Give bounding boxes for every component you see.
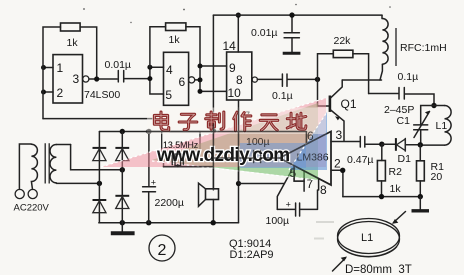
node detector out bbox=[418, 142, 423, 147]
svg-text:100µ: 100µ bbox=[246, 136, 270, 148]
svg-text:C1: C1 bbox=[397, 115, 411, 127]
svg-text:D=80mm 3T: D=80mm 3T bbox=[345, 264, 412, 275]
node 2200u top bbox=[146, 129, 151, 134]
ground rail bottom bbox=[99, 222, 239, 224]
watermark pink triangle bbox=[101, 98, 326, 167]
wire ground rail right bbox=[343, 196, 420, 198]
svg-text:9: 9 bbox=[229, 61, 236, 75]
capacitor 0.01u (coupling 1) bbox=[118, 71, 150, 82]
node R2 bottom bbox=[379, 194, 384, 199]
diode bridge top-right bbox=[115, 148, 129, 161]
svg-text:+: + bbox=[286, 200, 291, 210]
wire pin5 step bbox=[294, 166, 304, 181]
wire 1k feedback left bbox=[43, 27, 61, 119]
diode bridge bottom-right bbox=[115, 196, 129, 209]
svg-text:6: 6 bbox=[179, 75, 186, 89]
wire pin3 input bbox=[331, 141, 360, 143]
resistor R 1k (second) bbox=[166, 23, 186, 31]
svg-text:2200µ: 2200µ bbox=[155, 197, 184, 209]
watermark green triangle bbox=[152, 103, 318, 180]
svg-text:RFC:1mH: RFC:1mH bbox=[400, 42, 447, 54]
node bridge left gnd bbox=[120, 220, 125, 225]
resistor R2 1k bbox=[377, 144, 385, 196]
watermark blue triangle bbox=[289, 112, 327, 170]
watermark white dashed edges bbox=[101, 98, 327, 180]
capacitor 100u output (top) bbox=[254, 151, 280, 167]
capacitor 0.01u decoupling (top) bbox=[283, 15, 301, 53]
arrow upper right bbox=[392, 212, 406, 224]
svg-text:+: + bbox=[151, 178, 156, 188]
svg-text:3: 3 bbox=[336, 128, 343, 142]
gate U1B 74LS00 bbox=[164, 52, 195, 105]
node rail decoupling bbox=[289, 12, 294, 17]
wire collector node bbox=[342, 79, 381, 81]
resistor 22k bbox=[333, 50, 353, 57]
power wire horizontal bbox=[99, 131, 306, 133]
svg-text:D1:2AP9: D1:2AP9 bbox=[230, 249, 274, 261]
diode bridge bottom-left bbox=[93, 200, 107, 213]
wire audio to output cap bbox=[213, 157, 253, 159]
svg-text:D1: D1 bbox=[398, 153, 412, 165]
wire 1k2 feedback left bbox=[150, 27, 166, 67]
wire gate3 output bbox=[257, 78, 281, 80]
watermark residue faint bbox=[314, 222, 334, 239]
diode bridge top-left bbox=[93, 148, 107, 161]
svg-text:100µ: 100µ bbox=[266, 215, 290, 227]
wire pin1 gain diagonal bbox=[277, 166, 294, 210]
diode D1 2AP9 bbox=[382, 138, 421, 151]
svg-text:L1: L1 bbox=[436, 120, 448, 132]
wire gate2 output to gate3 inputs bbox=[195, 64, 227, 94]
wire pin6 Vcc bbox=[305, 132, 307, 144]
node R1 bottom bbox=[418, 194, 423, 199]
svg-text:2: 2 bbox=[158, 242, 167, 259]
capacitor 0.1u (RF out) bbox=[369, 88, 434, 106]
transformer core bbox=[45, 143, 49, 183]
svg-text:1: 1 bbox=[57, 61, 64, 75]
svg-text:6: 6 bbox=[307, 129, 314, 143]
wire gate3 pin7 ground drop bbox=[238, 100, 240, 223]
wire Vcc vertical feed bbox=[212, 15, 214, 131]
node C1/L1 top bbox=[431, 103, 436, 108]
resistor R1 20 bbox=[417, 145, 425, 197]
wire 22k right lead bbox=[353, 54, 369, 94]
svg-text:0.01µ: 0.01µ bbox=[251, 27, 278, 39]
svg-text:5: 5 bbox=[165, 88, 172, 102]
capacitor 0.47u bbox=[360, 137, 382, 148]
svg-text:8: 8 bbox=[236, 73, 243, 87]
ground symbol right bbox=[412, 197, 430, 211]
paper specks bbox=[83, 4, 391, 23]
wire 22k left lead bbox=[318, 54, 334, 80]
svg-text:0.1µ: 0.1µ bbox=[398, 71, 419, 83]
arrow lower left bbox=[333, 257, 348, 272]
transformer T primary bbox=[15, 144, 37, 199]
transformer T secondary bbox=[50, 145, 122, 184]
svg-text:14: 14 bbox=[223, 39, 237, 53]
node cap gnd bbox=[146, 220, 151, 225]
capacitor 0.1u (coupling 2) bbox=[282, 74, 317, 86]
svg-text:10: 10 bbox=[228, 86, 242, 100]
wire pin2 to ground rail bbox=[331, 170, 343, 196]
svg-text:1k: 1k bbox=[169, 34, 181, 46]
node rail pin14 bbox=[236, 13, 241, 18]
svg-text:22k: 22k bbox=[334, 35, 352, 47]
loudspeaker BL bbox=[199, 183, 219, 206]
node speaker gnd bbox=[211, 220, 216, 225]
op-amp U2 LM386 bbox=[280, 131, 332, 185]
wire gate1 input stubs bbox=[41, 65, 53, 95]
inductor RFC 1mH bbox=[380, 15, 396, 80]
wire pin7 stub bbox=[303, 171, 305, 191]
svg-text:4: 4 bbox=[166, 63, 173, 77]
wire 1k2 feedback right bbox=[186, 27, 200, 66]
svg-text:8: 8 bbox=[320, 183, 327, 197]
svg-text:0.1µ: 0.1µ bbox=[272, 90, 293, 102]
svg-text:1k: 1k bbox=[67, 37, 79, 49]
svg-text:LM386: LM386 bbox=[297, 152, 329, 164]
power rail top bbox=[213, 14, 382, 16]
node ground tee bbox=[236, 181, 241, 186]
capacitor C1 2-45P trimmer bbox=[414, 106, 434, 145]
svg-text:0.01µ: 0.01µ bbox=[105, 59, 132, 71]
svg-text:R2: R2 bbox=[389, 166, 403, 178]
node bridge right top bbox=[120, 129, 125, 134]
wire 1k feedback right to output node bbox=[80, 27, 97, 79]
crystal label box 13.5MHz bbox=[162, 132, 200, 155]
crystal Y1 bbox=[164, 154, 184, 167]
wire speaker bottom bbox=[212, 200, 214, 223]
gate U1A 74LS00 bbox=[53, 55, 89, 103]
overlay re-strokes through watermark bbox=[146, 108, 331, 190]
node Vcc feed bbox=[211, 128, 216, 133]
node R2 top bbox=[379, 142, 384, 147]
wire pin8 drop bbox=[318, 179, 320, 190]
svg-text:20: 20 bbox=[431, 171, 443, 183]
svg-text:0.47µ: 0.47µ bbox=[347, 154, 374, 166]
wire pin14 to rail bbox=[237, 15, 239, 52]
svg-text:13.5MHz: 13.5MHz bbox=[163, 140, 198, 150]
node pin2 bbox=[340, 168, 345, 173]
watermark white halo band bbox=[147, 108, 326, 135]
ground symbol main bbox=[111, 223, 135, 234]
inductor L1 bbox=[420, 106, 451, 146]
wire gate2 input node bbox=[147, 65, 163, 94]
wire ground tee to LM386 gnd bbox=[239, 183, 285, 185]
resistor R 1k (first) bbox=[61, 23, 81, 31]
wire speaker top bbox=[212, 132, 214, 189]
bridge rectifier columns bbox=[99, 132, 122, 223]
L1 loop antenna drawing bbox=[338, 219, 400, 257]
wire base feed bbox=[318, 79, 330, 106]
wire osc feedback bbox=[43, 119, 162, 132]
node gate1 output bbox=[94, 76, 99, 81]
wire audio lower bbox=[164, 166, 214, 168]
node base/22k junction bbox=[315, 77, 320, 82]
svg-text:1k: 1k bbox=[390, 183, 402, 195]
svg-text:74LS00: 74LS00 bbox=[84, 89, 120, 101]
transistor Q1 9014 bbox=[330, 80, 344, 141]
svg-text:2: 2 bbox=[334, 157, 341, 171]
svg-text:5: 5 bbox=[290, 166, 297, 180]
figure number circle 2 bbox=[149, 235, 175, 261]
watermark blue block bbox=[240, 143, 306, 168]
wire gate1 output bbox=[89, 78, 117, 80]
svg-text:Q1: Q1 bbox=[341, 97, 357, 111]
capacitor 100u gain (bottom) bbox=[277, 190, 317, 216]
svg-text:3: 3 bbox=[73, 72, 80, 86]
node secondary to bridge bbox=[97, 181, 102, 186]
svg-text:2: 2 bbox=[57, 86, 64, 100]
svg-text:AC220V: AC220V bbox=[14, 203, 50, 214]
svg-text:L1: L1 bbox=[361, 232, 373, 244]
gate U1C 74LS00 bbox=[227, 52, 258, 100]
capacitor 2200u bbox=[143, 132, 156, 223]
